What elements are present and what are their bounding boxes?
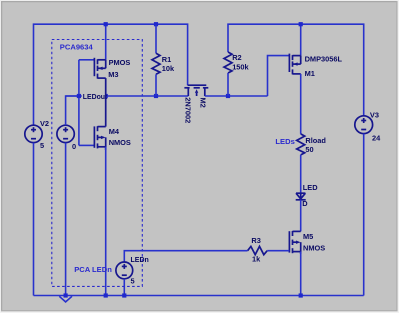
svg-text:LED: LED <box>303 183 318 192</box>
wire M1 source drop <box>300 24 302 55</box>
svg-text:NMOS: NMOS <box>303 243 325 252</box>
svg-text:24: 24 <box>372 134 381 143</box>
svg-text:NMOS: NMOS <box>109 138 131 147</box>
wire M5 source to 0V rail <box>300 252 302 296</box>
svg-text:LEDn: LEDn <box>131 257 149 264</box>
svg-text:5: 5 <box>40 141 44 150</box>
svg-text:0: 0 <box>72 142 76 151</box>
diode D LED <box>296 193 306 200</box>
wire LEDout net <box>66 95 189 97</box>
svg-text:R2: R2 <box>232 53 241 62</box>
node junction 5V/M3 <box>104 22 108 26</box>
wire gate tie M3/M4 <box>78 60 80 146</box>
svg-text:R1: R1 <box>162 55 171 64</box>
svg-text:D: D <box>302 199 308 208</box>
resistor R2 <box>224 52 232 96</box>
svg-text:5: 5 <box>131 276 135 285</box>
wire R3 to M5 gate <box>267 250 289 252</box>
wire M4 source to 0V rail <box>105 147 107 296</box>
resistor R1 <box>152 24 160 96</box>
node junction R2/M2 <box>226 94 230 98</box>
wire 24V top rail <box>228 24 364 116</box>
wire LED cathode to M5 <box>300 200 302 232</box>
voltage source V1 value 0 <box>57 125 74 142</box>
transistor M3 PMOS <box>94 58 105 96</box>
svg-text:R3: R3 <box>251 236 260 245</box>
node junction LEDn/rail <box>122 293 126 297</box>
node junction gates/LEDout <box>77 94 81 98</box>
wire 0V bottom rail <box>34 295 364 297</box>
node junction 5V/R1 <box>154 22 158 26</box>
transistor M2 2N7002 (rotated) <box>184 85 208 96</box>
svg-text:M2: M2 <box>198 98 207 108</box>
node junction 24V/M1 <box>299 22 303 26</box>
svg-text:LEDs: LEDs <box>275 137 294 146</box>
transistor M5 NMOS <box>289 231 300 254</box>
node label LEDout <box>82 91 108 101</box>
transistor M4 NMOS <box>94 96 105 150</box>
wire V1 minus to 0V rail <box>65 143 67 296</box>
resistor R3 <box>248 246 268 254</box>
wire M2 drain to R2 node <box>205 95 268 97</box>
voltage source V2 <box>25 125 42 142</box>
wire M3 source drop <box>105 24 107 60</box>
svg-text:2N7002: 2N7002 <box>184 97 193 123</box>
svg-text:50: 50 <box>305 145 313 154</box>
svg-text:PCA LEDn: PCA LEDn <box>74 265 112 274</box>
svg-text:1k: 1k <box>252 254 261 263</box>
wire M3 gate lead <box>79 59 94 61</box>
svg-text:M3: M3 <box>108 70 118 79</box>
node junction ground/V1 <box>64 293 68 297</box>
voltage source LEDn <box>116 262 133 279</box>
node junction R1/LEDout <box>154 94 158 98</box>
node junction M4 source/rail <box>104 293 108 297</box>
wire riser to M1 gate <box>268 56 290 96</box>
wire M4 gate lead <box>79 144 94 146</box>
svg-text:PCA9634: PCA9634 <box>60 42 94 51</box>
svg-text:V2: V2 <box>40 119 49 128</box>
node junction M5 source/rail <box>299 293 303 297</box>
wire M1 drain to Rload <box>300 74 302 134</box>
svg-text:M5: M5 <box>303 232 313 241</box>
svg-text:LEDout: LEDout <box>83 94 108 101</box>
svg-text:DMP3056L: DMP3056L <box>305 54 343 63</box>
transistor M1 DMP3056L PMOS <box>289 54 300 75</box>
svg-text:PMOS: PMOS <box>109 58 131 67</box>
svg-text:10k: 10k <box>162 64 175 73</box>
svg-text:V3: V3 <box>370 110 379 119</box>
svg-text:150k: 150k <box>232 62 249 71</box>
wire 5V top rail <box>34 24 188 125</box>
wire V2 minus to 0V rail <box>33 143 35 296</box>
ground symbol <box>59 296 72 302</box>
wire LEDn minus to 0V rail <box>123 279 125 296</box>
wire V3 minus to 0V rail <box>363 134 365 296</box>
dashed box PCA9634 <box>52 40 143 287</box>
svg-text:Rload: Rload <box>305 136 326 145</box>
wire V1 plus riser <box>66 96 79 125</box>
node junction M3/M4 drains <box>104 94 108 98</box>
wire LEDn source to R3 <box>124 251 247 263</box>
voltage source V3 <box>355 116 373 134</box>
resistor Rload <box>297 134 305 193</box>
svg-text:M1: M1 <box>305 69 315 78</box>
svg-text:M4: M4 <box>109 127 120 136</box>
